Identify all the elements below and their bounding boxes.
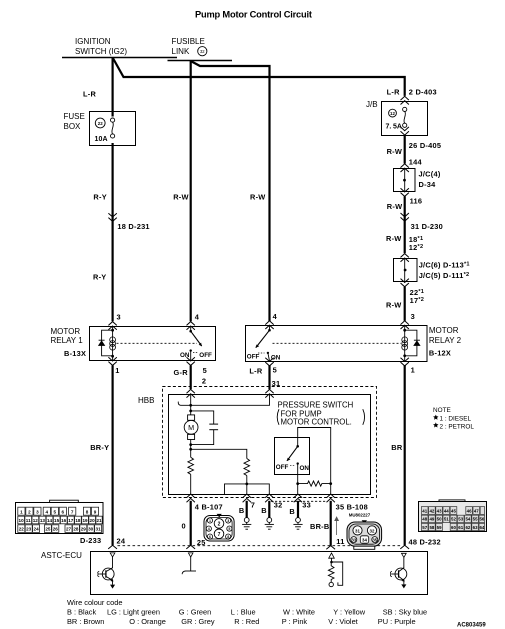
pin 31 arrows <box>265 389 273 397</box>
svg-text:3: 3 <box>117 312 121 321</box>
svg-text:42: 42 <box>429 508 434 513</box>
svg-text:26: 26 <box>53 527 59 532</box>
arrows out of J/B <box>401 127 409 135</box>
wire HBB pin4 to ECU pin 25 <box>190 501 192 546</box>
svg-text:43: 43 <box>437 508 442 513</box>
svg-text:FUSIBLE: FUSIBLE <box>172 37 205 46</box>
relay 2 box <box>246 326 428 362</box>
svg-text:L-R: L-R <box>83 90 96 99</box>
relay 1 coil branch <box>112 327 114 361</box>
svg-text:ON: ON <box>300 465 310 472</box>
relay 2 coil <box>402 337 408 343</box>
wire J/C(4) down <box>404 196 406 253</box>
svg-text:BR : Brown: BR : Brown <box>67 617 104 626</box>
pin 24 entry triangle <box>110 553 115 557</box>
ignition switch (IG2) source <box>62 37 177 58</box>
svg-text:57: 57 <box>422 525 427 530</box>
svg-text:56: 56 <box>479 517 484 522</box>
svg-text:8: 8 <box>227 535 229 539</box>
svg-text:7: 7 <box>218 532 221 538</box>
svg-text:G : Green: G : Green <box>179 608 211 617</box>
svg-text:R : Red: R : Red <box>234 617 259 626</box>
svg-text:MOTOR CONTROL.: MOTOR CONTROL. <box>281 417 352 426</box>
relay 1 diode <box>98 340 105 346</box>
svg-text:32: 32 <box>274 501 283 510</box>
relay 2 coil branch <box>404 326 406 362</box>
internal wire pin2 down <box>190 394 192 415</box>
relay 1 diode branch <box>102 330 113 356</box>
svg-text:1: 1 <box>411 366 415 375</box>
ground wire pin 33 <box>297 501 299 518</box>
svg-text:R-W: R-W <box>386 301 402 310</box>
svg-text:AC803459: AC803459 <box>457 622 486 628</box>
svg-text:FUSE: FUSE <box>64 112 85 121</box>
pin 11 exit triangle <box>329 553 335 558</box>
relay 1 coil <box>110 337 116 343</box>
svg-text:27: 27 <box>66 527 72 532</box>
svg-text:BR-B: BR-B <box>310 522 329 531</box>
svg-text:Y : Yellow: Y : Yellow <box>333 608 366 617</box>
svg-text:18 D-231: 18 D-231 <box>117 222 149 231</box>
svg-text:19: 19 <box>82 518 88 523</box>
svg-text:NOTE: NOTE <box>433 407 451 414</box>
svg-text:59: 59 <box>437 525 442 530</box>
arrows into relay 2 <box>265 321 273 329</box>
svg-text:5: 5 <box>228 527 230 531</box>
svg-text:30: 30 <box>88 527 94 532</box>
pin 48 entry triangle <box>402 553 407 557</box>
ground wire pin 7 <box>246 501 248 518</box>
svg-text:L-R: L-R <box>249 367 262 376</box>
svg-text:B: B <box>239 506 245 515</box>
svg-text:PRESSURE SWITCH: PRESSURE SWITCH <box>278 401 354 410</box>
svg-text:33: 33 <box>302 501 311 510</box>
svg-text:16: 16 <box>61 518 67 523</box>
svg-text:ON: ON <box>180 352 190 359</box>
svg-text:5: 5 <box>273 366 277 375</box>
wire relay1 pin1 to ECU pin 24 <box>111 365 113 545</box>
svg-text:J/C(5) D-111*2: J/C(5) D-111*2 <box>419 271 470 280</box>
resistor in ECU <box>328 562 334 582</box>
svg-text:R-W: R-W <box>173 193 189 202</box>
svg-text:24: 24 <box>34 527 40 532</box>
direction arrow <box>335 517 339 535</box>
svg-text:4: 4 <box>208 527 210 531</box>
B-108 dashed line <box>271 500 327 502</box>
transistor Q2 <box>390 568 406 589</box>
pump motor <box>184 415 198 440</box>
svg-text:3: 3 <box>411 312 415 321</box>
resistor 2 (to pin 7) <box>244 459 250 476</box>
svg-text:J/B: J/B <box>366 100 378 109</box>
svg-text:49: 49 <box>429 517 434 522</box>
svg-text:55: 55 <box>473 517 478 522</box>
wire switch to bottom <box>297 464 299 495</box>
svg-text:31 D-230: 31 D-230 <box>411 222 443 231</box>
svg-text:BOX: BOX <box>64 122 82 131</box>
svg-text:ON: ON <box>271 354 281 361</box>
switch blade <box>287 446 298 461</box>
svg-text:7: 7 <box>251 501 255 510</box>
svg-text:R-Y: R-Y <box>93 193 106 202</box>
svg-text:6: 6 <box>209 535 211 539</box>
pressure switch net <box>298 428 331 484</box>
svg-text:62: 62 <box>465 525 470 530</box>
svg-text:M: M <box>188 423 194 432</box>
svg-text:17: 17 <box>68 518 74 523</box>
svg-text:46: 46 <box>467 508 472 513</box>
svg-text:50: 50 <box>437 517 442 522</box>
svg-text:18: 18 <box>75 518 81 523</box>
wire to pin 35 <box>330 484 332 495</box>
svg-text:5: 5 <box>203 366 207 375</box>
svg-text:O : Orange: O : Orange <box>129 617 166 626</box>
svg-text:2 : PETROL: 2 : PETROL <box>440 423 475 430</box>
capacitor plates <box>209 423 218 425</box>
arrows out of J/C(4) <box>401 188 409 196</box>
svg-text:54: 54 <box>465 517 470 522</box>
svg-text:1: 1 <box>115 366 119 375</box>
svg-text:G-R: G-R <box>174 368 189 377</box>
svg-text:48: 48 <box>422 517 427 522</box>
svg-text:V : Violet: V : Violet <box>328 617 357 626</box>
svg-text:35 B-108: 35 B-108 <box>336 502 368 511</box>
svg-text:51: 51 <box>444 517 449 522</box>
pin 25 entry triangle <box>188 553 193 557</box>
svg-text:8: 8 <box>86 509 89 514</box>
branch to resistor 2 <box>191 449 247 458</box>
svg-text:31: 31 <box>96 527 102 532</box>
svg-text:7. 5A: 7. 5A <box>386 124 403 131</box>
svg-text:MOTOR: MOTOR <box>429 326 459 335</box>
hook end <box>178 402 180 406</box>
svg-text:9: 9 <box>94 509 97 514</box>
svg-text:B-12X: B-12X <box>429 349 451 358</box>
wire relay1 pin5 to HBB pin2 <box>190 365 192 389</box>
wire end tents at ECU <box>108 545 117 549</box>
svg-text:14: 14 <box>47 518 53 523</box>
HBB inner case <box>169 395 371 495</box>
svg-text:12: 12 <box>390 111 395 116</box>
svg-text:OFF: OFF <box>247 353 260 360</box>
svg-text:L : Blue: L : Blue <box>231 608 256 617</box>
wire: fusible link down <box>190 61 192 321</box>
svg-text:B-13X: B-13X <box>64 349 86 358</box>
connector arrows into J/B <box>401 96 409 104</box>
internal wire pin31 down and left <box>181 394 270 406</box>
svg-text:D-34: D-34 <box>419 180 437 189</box>
svg-text:6: 6 <box>62 509 65 514</box>
svg-text:4 B-107: 4 B-107 <box>195 503 223 512</box>
svg-text:BR-Y: BR-Y <box>90 443 109 452</box>
wire relay2 pin5 to HBB pin31 <box>268 365 270 389</box>
wire J/B to J/C(4) <box>404 135 406 164</box>
svg-text:13: 13 <box>40 518 46 523</box>
svg-text:Wire colour code: Wire colour code <box>67 598 122 607</box>
svg-text:21: 21 <box>96 518 102 523</box>
svg-text:1: 1 <box>20 509 23 514</box>
svg-text:B: B <box>261 506 267 515</box>
relay 1 box <box>90 327 216 361</box>
svg-text:2: 2 <box>202 377 206 386</box>
svg-text:2: 2 <box>28 509 31 514</box>
svg-text:Pump Motor Control Circuit: Pump Motor Control Circuit <box>195 10 312 20</box>
ground wire pin 32 <box>268 501 270 518</box>
svg-text:B : Black: B : Black <box>67 608 96 617</box>
dashed link contacts to coil <box>273 342 402 344</box>
svg-text:MU802227: MU802227 <box>349 512 371 517</box>
svg-text:23: 23 <box>26 527 32 532</box>
svg-text:25: 25 <box>197 538 206 547</box>
svg-text:45: 45 <box>451 508 456 513</box>
svg-text:J/C(6) D-113*1: J/C(6) D-113*1 <box>419 261 470 270</box>
svg-text:RELAY 1: RELAY 1 <box>51 336 84 345</box>
relay 2 diode branch <box>405 330 417 356</box>
wire relay2 pin1 to ECU pin48 <box>404 365 406 545</box>
svg-text:25: 25 <box>45 527 51 532</box>
svg-text:SWITCH (IG2): SWITCH (IG2) <box>75 47 127 56</box>
svg-text:22: 22 <box>98 121 103 126</box>
HBB dashed boundary <box>163 387 377 498</box>
svg-text:HBB: HBB <box>138 396 154 405</box>
svg-text:15: 15 <box>54 518 60 523</box>
svg-text:144: 144 <box>409 157 423 166</box>
arrows into J/C(6)/(5) <box>401 254 409 262</box>
svg-text:20: 20 <box>90 518 96 523</box>
dashed link coil to contacts <box>117 342 198 344</box>
svg-text:44: 44 <box>444 508 449 513</box>
svg-text:BR: BR <box>391 443 403 452</box>
pin 2 arrows <box>187 389 195 397</box>
fusible link 32 source <box>168 37 233 61</box>
svg-text:26 D-405: 26 D-405 <box>409 141 441 150</box>
wire: ignition switch branch to J/B (right) <box>113 58 405 96</box>
svg-text:22: 22 <box>19 527 25 532</box>
svg-text:ASTC-ECU: ASTC-ECU <box>41 551 82 560</box>
svg-text:2: 2 <box>218 522 221 528</box>
relay 1 switch <box>190 327 192 332</box>
arrows out of relay 2 <box>265 358 273 366</box>
svg-text:31: 31 <box>355 528 360 533</box>
svg-text:LINK: LINK <box>172 47 190 56</box>
svg-text:116: 116 <box>410 197 423 206</box>
svg-text:7: 7 <box>71 509 74 514</box>
HBB bottom pin arrows <box>187 494 195 502</box>
relay 2 switch <box>269 326 271 331</box>
svg-text:IGNITION: IGNITION <box>75 37 111 46</box>
svg-text:34: 34 <box>362 537 367 542</box>
arrows into relay 1 <box>108 322 116 330</box>
svg-text:12: 12 <box>33 518 39 523</box>
wire: fusible link branch right to x=269.5 <box>191 61 270 321</box>
svg-text:RELAY 2: RELAY 2 <box>429 336 462 345</box>
svg-text:48 D-232: 48 D-232 <box>409 537 441 546</box>
svg-text:R-W: R-W <box>387 202 403 211</box>
svg-text:60: 60 <box>451 525 456 530</box>
inline connector 31 D-230 <box>401 213 409 221</box>
svg-text:MOTOR: MOTOR <box>51 327 81 336</box>
svg-text:11: 11 <box>336 537 344 546</box>
capacitor branch <box>191 411 214 445</box>
svg-text:47: 47 <box>474 508 479 513</box>
svg-text:GR : Grey: GR : Grey <box>181 617 215 626</box>
svg-text:32: 32 <box>200 49 205 54</box>
arrows out of J/C(6)/(5) <box>401 279 409 287</box>
svg-text:4: 4 <box>273 312 278 321</box>
svg-text:SB : Sky blue: SB : Sky blue <box>383 608 427 617</box>
svg-text:35: 35 <box>372 537 377 542</box>
svg-text:L-R: L-R <box>387 88 400 97</box>
svg-text:63: 63 <box>473 525 478 530</box>
svg-text:J/C(4): J/C(4) <box>419 170 441 179</box>
inline connector 18 D-231 <box>108 213 116 221</box>
svg-text:4: 4 <box>195 312 200 321</box>
junction connector J/C(4) D-34 <box>394 169 441 192</box>
J/B fuse box <box>366 100 428 136</box>
svg-text:52: 52 <box>451 517 456 522</box>
svg-text:R-W: R-W <box>386 234 402 243</box>
svg-text:P : Pink: P : Pink <box>282 617 308 626</box>
relay 2 diode <box>413 340 420 346</box>
svg-text:3: 3 <box>227 519 229 523</box>
svg-text:LG : Light green: LG : Light green <box>107 608 160 617</box>
wire: fuse box to relay 1 pin 3 <box>111 143 113 321</box>
svg-text:B: B <box>289 507 295 516</box>
resistor (left, in series with motor) <box>188 457 194 474</box>
wire below motor <box>190 440 192 458</box>
svg-text:61: 61 <box>458 525 463 530</box>
svg-text:41: 41 <box>422 508 427 513</box>
svg-text:4: 4 <box>46 509 49 514</box>
svg-text:64: 64 <box>479 525 484 530</box>
svg-text:3: 3 <box>36 509 39 514</box>
svg-text:D-233: D-233 <box>80 536 101 545</box>
svg-text:R-W: R-W <box>250 193 266 202</box>
svg-text:R-Y: R-Y <box>93 273 106 282</box>
junction connector J/C(6)/J/C(5) <box>394 258 470 281</box>
arrows out of relay 1 <box>108 357 116 365</box>
svg-text:29: 29 <box>81 527 87 532</box>
wire resistor1 to pin 4 <box>190 474 192 494</box>
fuse 22 10A <box>95 118 105 128</box>
svg-text:OFF: OFF <box>276 464 289 471</box>
svg-text:W : White: W : White <box>283 608 315 617</box>
resistor (pressure switch parallel) <box>298 481 331 486</box>
svg-text:2 D-403: 2 D-403 <box>409 88 437 97</box>
svg-text:33: 33 <box>351 537 356 542</box>
pressure switch box <box>275 438 310 475</box>
svg-text:PU : Purple: PU : Purple <box>378 617 416 626</box>
transistor Q1 <box>98 568 115 589</box>
svg-text:11: 11 <box>26 518 31 523</box>
wire to relay 2 pin 3 <box>404 287 406 321</box>
svg-text:5: 5 <box>54 509 57 514</box>
svg-text:53: 53 <box>458 517 463 522</box>
wire resistor2 to bus <box>246 476 248 495</box>
wire: ignition switch down to fuse box <box>111 58 113 117</box>
svg-text:32: 32 <box>370 528 375 533</box>
bus to pin 32 and stub <box>225 484 270 495</box>
wire HBB pin35 to ECU pin 11 <box>330 501 332 546</box>
svg-text:1 : DIESEL: 1 : DIESEL <box>440 416 472 423</box>
svg-text:10A: 10A <box>95 136 108 143</box>
svg-text:OFF: OFF <box>199 352 212 359</box>
svg-text:58: 58 <box>429 525 434 530</box>
svg-text:0: 0 <box>182 521 186 530</box>
svg-text:24: 24 <box>117 536 126 545</box>
svg-text:10: 10 <box>19 518 25 523</box>
svg-text:28: 28 <box>73 527 79 532</box>
svg-text:1: 1 <box>209 519 211 523</box>
svg-text:R-W: R-W <box>387 147 403 156</box>
